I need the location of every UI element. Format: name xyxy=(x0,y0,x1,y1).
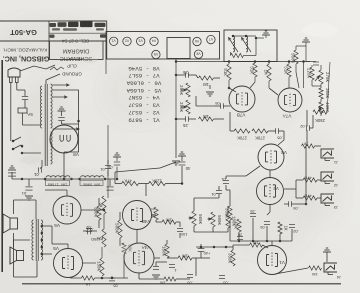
preamp tube V3 xyxy=(258,144,284,170)
resistor 47K J3 xyxy=(303,196,317,200)
line cap xyxy=(22,95,28,97)
jack J4 xyxy=(324,263,337,272)
plate resistor 51K b xyxy=(253,63,257,77)
B plus filter bus xyxy=(12,178,115,180)
tube layout box xyxy=(106,32,220,60)
svg-text:GROUND: GROUND xyxy=(62,72,82,77)
resistor 1M c xyxy=(267,64,271,81)
grid wiring V5 V6 xyxy=(81,209,104,211)
input bus wires xyxy=(296,179,303,181)
title block top rule xyxy=(0,20,107,22)
tube layout circle V2 xyxy=(123,37,131,45)
wire 120K down to V4B xyxy=(145,184,147,197)
cathode resistor 1K xyxy=(82,276,95,280)
tube layout circle V7 xyxy=(207,35,215,43)
svg-text:40: 40 xyxy=(185,166,190,171)
resistor 270K b xyxy=(252,129,268,133)
cap .01 at V2 plate xyxy=(223,180,229,182)
svg-text:+40: +40 xyxy=(203,251,211,256)
cap .05 V2 b xyxy=(264,221,270,223)
ground clip lead wire xyxy=(20,65,55,71)
svg-text:V8: V8 xyxy=(196,52,200,56)
svg-text:250K: 250K xyxy=(315,118,325,123)
inset ground xyxy=(256,37,264,39)
tube layout circle V8 xyxy=(194,50,202,58)
resistor 1M mid xyxy=(162,220,176,224)
V4 interconnect wires xyxy=(136,230,138,244)
svg-text:V5: V5 xyxy=(154,52,158,56)
phase inverter tube V7B xyxy=(229,86,255,112)
grid resistor 1M upper xyxy=(199,76,214,80)
resistor 47K J2 xyxy=(303,178,317,182)
svg-text:330K: 330K xyxy=(227,253,231,264)
mains wiring xyxy=(10,83,12,142)
cap .05 bottom a xyxy=(187,274,193,276)
resistor 47K V2 xyxy=(237,219,241,232)
filter cap right xyxy=(109,179,111,186)
mic preamp tube V1 xyxy=(258,246,287,275)
svg-text:270K: 270K xyxy=(324,72,328,83)
svg-text:V8: V8 xyxy=(73,152,79,157)
resistor 270K a xyxy=(234,129,250,133)
inset coil b xyxy=(246,36,248,52)
feedback line xyxy=(327,62,330,113)
resistor 30K at V4A xyxy=(122,243,126,254)
inset arrow a xyxy=(229,38,239,53)
tube layout circle V1 xyxy=(110,37,118,45)
grid resistor 1M lower xyxy=(199,117,214,121)
cathode bus xyxy=(95,277,129,279)
plate resistor 120K xyxy=(149,181,166,185)
svg-text:250K: 250K xyxy=(178,102,182,113)
AC plug xyxy=(8,68,20,77)
B plus top bus xyxy=(176,61,310,63)
resistor 1M bottom b xyxy=(164,277,176,281)
inset resistor xyxy=(231,53,244,57)
transformer top lead xyxy=(45,80,47,84)
tone pot 500K a xyxy=(192,211,196,226)
wire V4B plate to coupling xyxy=(107,125,109,198)
resistor 500K below xyxy=(118,220,122,238)
resistor 1M bottom xyxy=(178,256,192,260)
choke 10h 175ma xyxy=(46,176,70,178)
supply wire to plate resistors xyxy=(115,183,122,185)
tone pot 500K b xyxy=(211,212,215,227)
resistor 330K V1 xyxy=(231,250,235,266)
fuse 5A xyxy=(18,108,27,113)
power switch xyxy=(12,140,15,143)
plate resistor 47K V4B xyxy=(122,181,139,185)
cap .05 at V3 xyxy=(275,128,277,134)
jack J3 xyxy=(321,194,334,203)
filter cap left xyxy=(11,172,13,179)
inset footswitch box xyxy=(224,30,277,62)
V2 bottom bus xyxy=(230,240,292,242)
tube layout transformer rectangle xyxy=(167,38,190,59)
plate resistor 51K a xyxy=(227,64,231,80)
svg-text:.01: .01 xyxy=(210,192,216,197)
V8 plate wiring box xyxy=(53,90,79,152)
svg-text:.05: .05 xyxy=(222,281,228,286)
right vertical bus xyxy=(305,146,307,204)
schematic diagram box xyxy=(50,41,104,60)
resistor 1K input xyxy=(302,144,315,148)
screen resistor V6 xyxy=(102,196,106,214)
output transformer secondary xyxy=(41,220,43,260)
V4A wires xyxy=(154,257,160,259)
V1 output wire to jack xyxy=(275,268,308,274)
left border of schematic sheet xyxy=(1,60,3,272)
coupling cap .25 lower xyxy=(185,116,187,122)
bus under V4A network xyxy=(196,246,233,248)
resistor 100K V4A xyxy=(165,244,169,258)
tube layout circle V4 xyxy=(150,37,158,45)
power transformer core xyxy=(44,84,46,166)
smoothing cap at V8 xyxy=(58,110,66,112)
svg-text:.01: .01 xyxy=(33,172,39,177)
output transformer primary xyxy=(32,220,34,260)
tube layout circle V5 xyxy=(152,50,160,58)
bottom border of schematic sheet xyxy=(22,283,341,285)
svg-text:.01: .01 xyxy=(21,191,27,196)
V5 plate lead xyxy=(67,244,69,249)
resistor 220K xyxy=(310,67,314,80)
rectifier tube V8 xyxy=(50,125,78,153)
inset wiring xyxy=(230,52,232,56)
title block right rule xyxy=(106,21,108,60)
coupling cap .25 upper xyxy=(185,72,187,78)
svg-text:V7: V7 xyxy=(209,37,213,41)
speaker xyxy=(10,218,18,229)
title block inner divider xyxy=(48,21,50,60)
svg-text:.02: .02 xyxy=(299,124,305,129)
tube layout circle V6 xyxy=(193,37,201,45)
svg-text:V6: V6 xyxy=(195,39,199,43)
transformer tap arrow 3 xyxy=(53,128,80,131)
resistor 330K V2 xyxy=(228,206,232,220)
tube box left edge stub xyxy=(105,60,107,75)
power transformer secondary winding xyxy=(51,84,53,128)
pot ground return xyxy=(175,122,177,158)
cap .01 right xyxy=(216,190,222,192)
V7A plate feed xyxy=(303,62,305,89)
output transformer core xyxy=(35,219,37,261)
svg-text:V2: V2 xyxy=(125,39,129,43)
cap .02 input xyxy=(306,125,308,131)
input bus vertical xyxy=(175,62,177,123)
resistor 1M V1 grid xyxy=(250,243,263,247)
svg-text:.05: .05 xyxy=(276,136,282,141)
svg-text:150K: 150K xyxy=(96,261,100,272)
clip symbol xyxy=(50,67,64,70)
wire from V7B cathode to 270K chain xyxy=(229,112,231,131)
screen cap with ground xyxy=(113,156,121,158)
volume pot 250K lower xyxy=(186,100,190,114)
cap .02 V2 xyxy=(289,224,295,226)
phase inverter tube V7A xyxy=(278,88,302,112)
speaker field coil unit xyxy=(17,251,24,261)
cap .02 V4 area xyxy=(86,228,92,230)
scan bleed shading xyxy=(0,14,115,66)
jack J4 resistor 1M xyxy=(309,266,322,270)
resistor 100K b xyxy=(226,214,230,228)
resistor 1K V2 xyxy=(278,222,282,234)
svg-text:1K: 1K xyxy=(85,282,90,287)
title block stamped model text xyxy=(50,21,106,30)
svg-text:.25: .25 xyxy=(182,70,188,75)
jack J2 xyxy=(321,172,334,181)
plate resistor 51K d xyxy=(287,64,291,77)
svg-text:500K: 500K xyxy=(197,214,201,225)
paper smudges xyxy=(20,156,40,164)
svg-text:.25: .25 xyxy=(182,123,188,128)
svg-text:1M: 1M xyxy=(160,281,166,286)
pot 250K treble xyxy=(313,110,327,114)
cathode resistor 150K xyxy=(100,258,104,276)
cap at divider xyxy=(313,61,319,63)
cap .1 xyxy=(169,264,175,266)
wire V3 to tone controls xyxy=(246,166,260,176)
jack J1 xyxy=(321,149,334,158)
svg-text:.05: .05 xyxy=(186,281,192,286)
power transformer heater winding xyxy=(51,132,53,164)
svg-text:300K: 300K xyxy=(324,88,328,99)
pot 270K xyxy=(319,70,323,84)
B+ wire from filter to plate resistors xyxy=(114,172,116,179)
power transformer primary winding xyxy=(40,86,42,128)
ground at V7B grid xyxy=(209,85,211,89)
V2 to V1 wire xyxy=(271,241,273,246)
preamp tube V2 xyxy=(257,178,284,205)
V3 V2 link xyxy=(269,170,271,178)
title block mid rule xyxy=(0,40,107,42)
date line CEL 8-27-54 xyxy=(49,32,107,34)
wire V7 plates to output tubes xyxy=(196,105,214,107)
cap .05 bottom b xyxy=(219,275,225,277)
cathode cap .05 xyxy=(109,277,115,279)
resistor 2.7K xyxy=(154,207,158,220)
tremolo tube V4B xyxy=(123,201,152,230)
resistor 5000 ohm xyxy=(294,50,298,64)
cap .05 V2 grid xyxy=(288,201,290,207)
transformer tap arrow 2 xyxy=(53,96,68,99)
resistor 330K at V4B xyxy=(97,206,101,220)
svg-text:1M: 1M xyxy=(182,254,188,259)
coupling caps .05 to output tubes xyxy=(220,103,222,109)
tremolo tube V4A xyxy=(124,243,154,273)
svg-text:120K: 120K xyxy=(152,179,162,184)
svg-text:1M: 1M xyxy=(312,272,318,277)
inset coil a xyxy=(233,36,235,52)
electrolytic 40uf xyxy=(178,155,186,157)
power tube V6 xyxy=(53,196,81,224)
choke 30h 50ma xyxy=(81,176,104,178)
ground top right xyxy=(302,41,310,43)
ground at J4 xyxy=(323,251,331,253)
svg-text:V3: V3 xyxy=(139,39,143,43)
svg-text:V3: V3 xyxy=(281,150,287,155)
wire tube list bus xyxy=(175,59,177,62)
resistor 430K xyxy=(319,102,323,113)
inset arrow b xyxy=(242,38,252,53)
V6 plate lead xyxy=(66,190,68,196)
filter cap mid xyxy=(28,179,30,186)
cathode cap .02 xyxy=(86,228,88,234)
transformer tap arrow 1 xyxy=(53,84,70,87)
screen resistor V5 xyxy=(102,229,106,247)
ground cap bottom left xyxy=(155,262,157,266)
electrolytic 40uf b xyxy=(198,248,205,250)
V7 coupling wires xyxy=(229,88,236,92)
cap 20 V1 xyxy=(237,236,243,238)
volume pot 250K upper xyxy=(186,83,190,97)
svg-text:V1: V1 xyxy=(279,260,285,265)
tube layout circle V3 xyxy=(137,37,145,45)
cap 100 xyxy=(177,228,183,230)
svg-text:V4: V4 xyxy=(152,39,156,43)
wire cap to V3 xyxy=(283,131,285,140)
svg-text:220K: 220K xyxy=(306,68,310,79)
cap .01 left xyxy=(105,165,111,167)
speaker wiring xyxy=(13,200,15,214)
power tube V5 xyxy=(54,249,83,278)
resistor 300K xyxy=(319,88,323,99)
svg-text:5000: 5000 xyxy=(290,53,294,64)
svg-text:.05: .05 xyxy=(113,284,118,288)
